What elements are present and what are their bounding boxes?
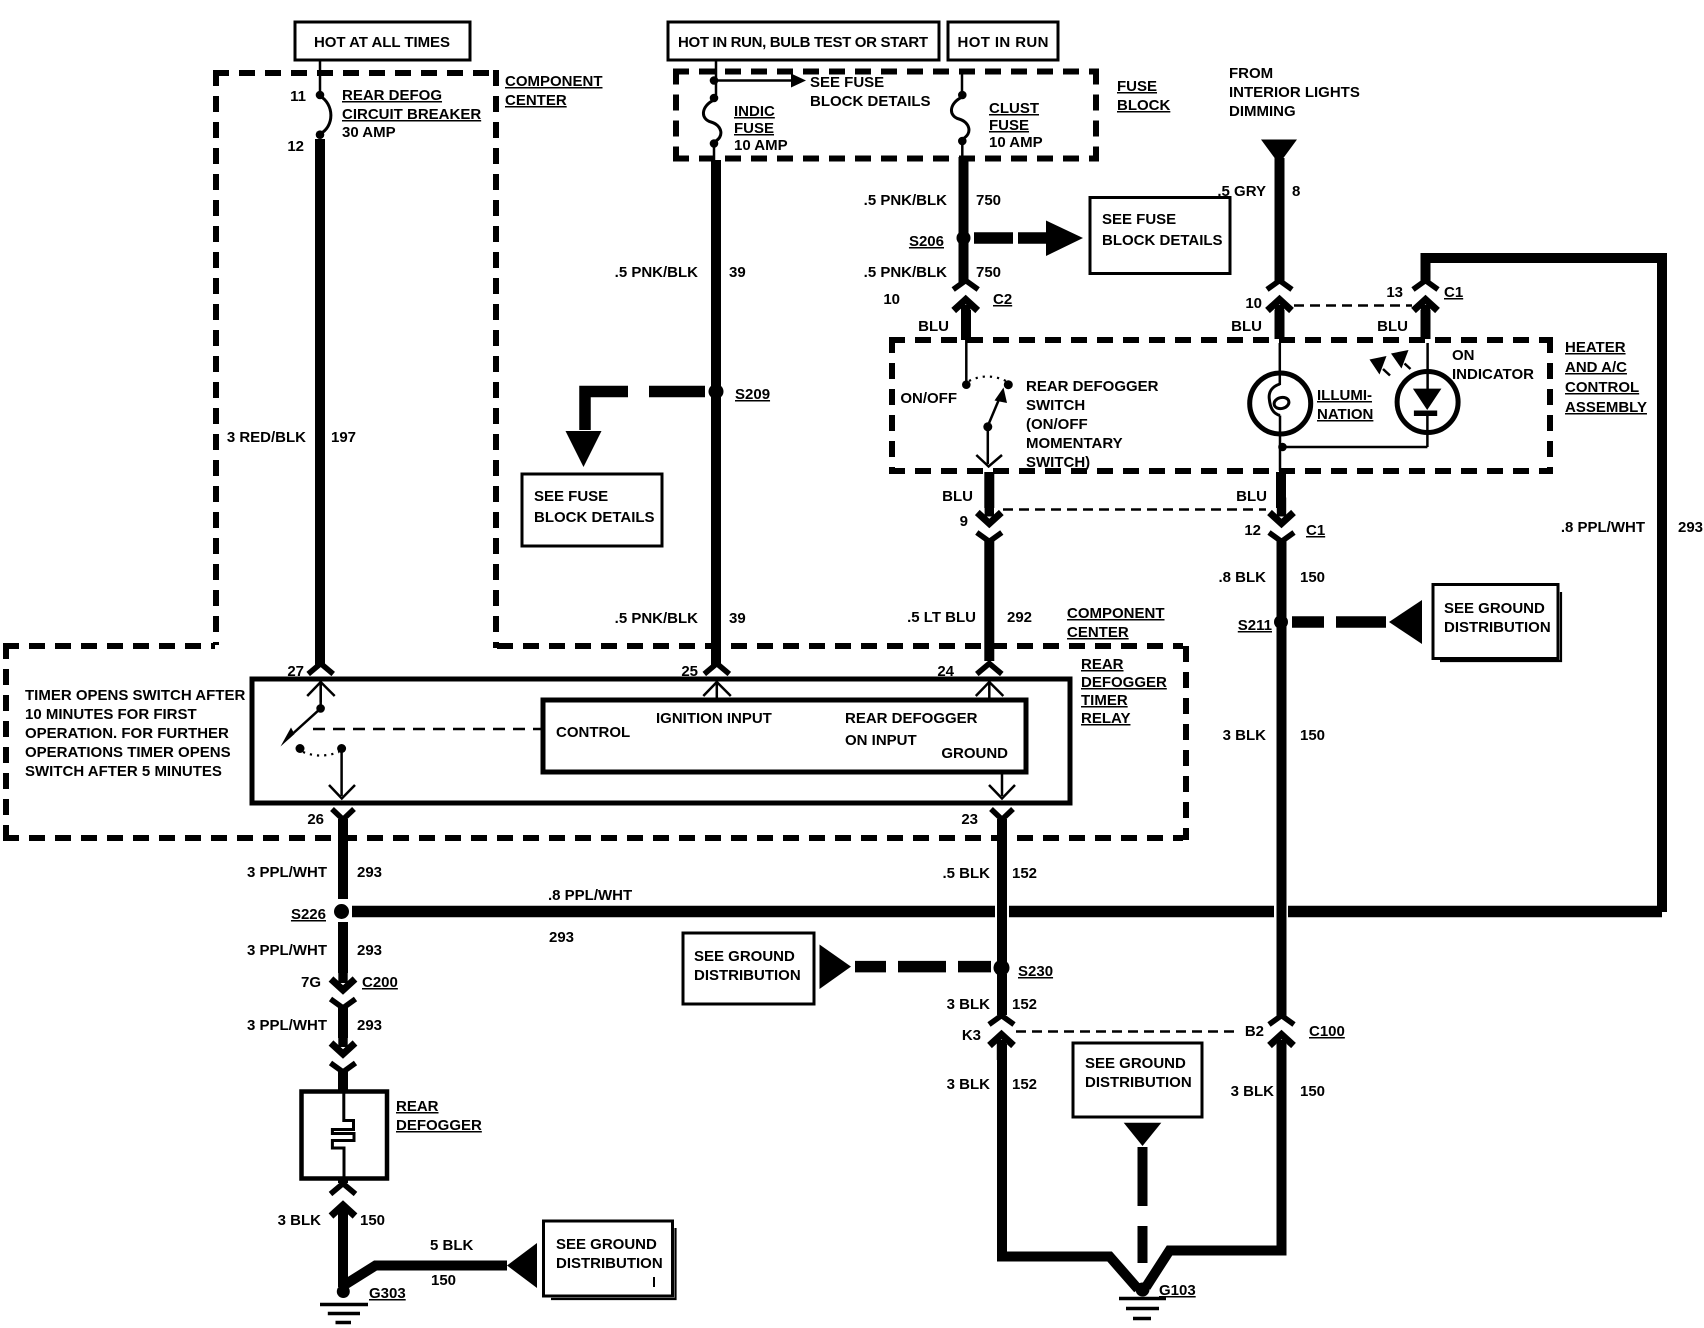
relay ground output arrow to terminal 23 bbox=[1001, 772, 1004, 796]
svg-text:3 PPL/WHT: 3 PPL/WHT bbox=[247, 1017, 327, 1034]
component center outline: right edge bbox=[1183, 646, 1189, 840]
svg-text:.8 PPL/WHT: .8 PPL/WHT bbox=[548, 887, 632, 904]
svg-text:REAR DEFOG: REAR DEFOG bbox=[342, 87, 442, 104]
relay terminal 25 bbox=[703, 664, 731, 703]
fuse CLUST element bbox=[951, 97, 968, 139]
svg-text:150: 150 bbox=[431, 1272, 456, 1289]
branch arrow to SEE FUSE BLOCK DETAILS note bbox=[714, 79, 792, 82]
wire BLU stub into heater box (illumination) bbox=[1275, 310, 1285, 339]
wire 197 RED/BLK vertical bbox=[315, 139, 325, 665]
svg-text:24: 24 bbox=[937, 663, 954, 680]
splice S211 bbox=[1274, 615, 1288, 629]
svg-text:CENTER: CENTER bbox=[1067, 624, 1129, 641]
note box SEE FUSE BLOCK DETAILS (left) bbox=[522, 474, 662, 546]
svg-text:10 AMP: 10 AMP bbox=[734, 137, 788, 154]
svg-text:ILLUMI-: ILLUMI- bbox=[1317, 387, 1372, 404]
svg-text:SEE GROUND: SEE GROUND bbox=[1444, 600, 1545, 617]
wire from feed box to circuit breaker bbox=[319, 60, 322, 95]
note box SEE GROUND DISTRIBUTION (S211) bbox=[1433, 585, 1558, 659]
svg-text:C200: C200 bbox=[362, 974, 398, 991]
svg-text:CENTER: CENTER bbox=[505, 92, 567, 109]
svg-text:293: 293 bbox=[1678, 519, 1703, 536]
S211 branch dashed wire bbox=[1292, 616, 1324, 628]
svg-text:BLOCK: BLOCK bbox=[1117, 97, 1170, 114]
svg-text:S230: S230 bbox=[1018, 963, 1053, 980]
svg-text:C1: C1 bbox=[1306, 522, 1325, 539]
svg-text:10: 10 bbox=[883, 291, 900, 308]
svg-text:293: 293 bbox=[357, 1017, 382, 1034]
svg-text:750: 750 bbox=[976, 192, 1001, 209]
svg-text:S226: S226 bbox=[291, 906, 326, 923]
wire 150 BLK to G103 (right) bbox=[1146, 1044, 1282, 1287]
wire BLU stub into heater box (indicator) bbox=[1421, 310, 1431, 339]
svg-text:.5 PNK/BLK: .5 PNK/BLK bbox=[615, 610, 699, 627]
fuse INDIC lower terminal dot bbox=[710, 139, 719, 148]
svg-text:3 PPL/WHT: 3 PPL/WHT bbox=[247, 864, 327, 881]
svg-text:39: 39 bbox=[729, 264, 746, 281]
svg-text:8: 8 bbox=[1292, 183, 1300, 200]
fuse INDIC upper terminal dot bbox=[710, 94, 719, 103]
wire BLU below heater box (indicator return) bbox=[1276, 472, 1286, 508]
relay switch closed contact dot bbox=[337, 744, 346, 753]
note box SEE FUSE BLOCK DETAILS (right) bbox=[1090, 198, 1230, 274]
svg-text:FUSE: FUSE bbox=[989, 117, 1029, 134]
connector C2 pin 10 bbox=[953, 281, 978, 326]
svg-text:SWITCH): SWITCH) bbox=[1026, 454, 1090, 471]
svg-text:DISTRIBUTION: DISTRIBUTION bbox=[1444, 619, 1551, 636]
svg-text:G303: G303 bbox=[369, 1285, 406, 1302]
rear defogger box bbox=[302, 1092, 388, 1179]
svg-text:293: 293 bbox=[357, 942, 382, 959]
G103 note arrow (filled triangle down) bbox=[1124, 1123, 1162, 1146]
svg-text:11: 11 bbox=[290, 88, 306, 105]
component center outline: relay-box top edge bbox=[497, 643, 1183, 649]
svg-text:COMPONENT: COMPONENT bbox=[1067, 605, 1165, 622]
feed box HOT IN RUN, BULB TEST OR START bbox=[668, 22, 939, 60]
wire stub below CLUST fuse bbox=[961, 141, 964, 158]
relay terminal 23 bbox=[991, 809, 1013, 820]
S206 branch dashed wire to fuse block details bbox=[974, 232, 1013, 244]
svg-text:39: 39 bbox=[729, 610, 746, 627]
ground G303 bbox=[337, 1285, 350, 1298]
relay switch blade with arrowhead bbox=[288, 708, 321, 738]
svg-text:152: 152 bbox=[1012, 996, 1037, 1013]
svg-text:.8 PPL/WHT: .8 PPL/WHT bbox=[1561, 519, 1645, 536]
svg-text:REAR: REAR bbox=[396, 1098, 439, 1115]
svg-text:152: 152 bbox=[1012, 1076, 1037, 1093]
svg-text:SWITCH: SWITCH bbox=[1026, 397, 1085, 414]
switch output thin wire with open arrow bbox=[987, 427, 990, 464]
fuse CLUST upper terminal dot bbox=[958, 91, 967, 100]
component center outline right edge (tall box) bbox=[493, 70, 499, 648]
svg-text:3 BLK: 3 BLK bbox=[947, 1076, 991, 1093]
svg-text:B2: B2 bbox=[1245, 1023, 1264, 1040]
ground symbol G103 bbox=[1119, 1297, 1166, 1301]
splice S230 bbox=[994, 960, 1010, 976]
svg-text:BLOCK DETAILS: BLOCK DETAILS bbox=[810, 93, 931, 110]
svg-text:150: 150 bbox=[1300, 727, 1325, 744]
wire BLU into switch box bbox=[961, 310, 971, 340]
svg-text:HEATER: HEATER bbox=[1565, 339, 1626, 356]
svg-text:SEE FUSE: SEE FUSE bbox=[810, 74, 884, 91]
bulb feed wire inside box bbox=[1279, 343, 1282, 385]
relay terminal 26 bbox=[332, 809, 354, 820]
svg-text:750: 750 bbox=[976, 264, 1001, 281]
svg-text:BLU: BLU bbox=[1236, 488, 1267, 505]
svg-text:(ON/OFF: (ON/OFF bbox=[1026, 416, 1088, 433]
svg-text:10 MINUTES FOR FIRST: 10 MINUTES FOR FIRST bbox=[25, 706, 197, 723]
connector pin 9 (switch output) bbox=[977, 498, 1002, 542]
svg-text:DISTRIBUTION: DISTRIBUTION bbox=[1085, 1074, 1192, 1091]
switch output contact dot bbox=[1004, 380, 1013, 389]
svg-text:27: 27 bbox=[287, 663, 304, 680]
svg-text:BLOCK DETAILS: BLOCK DETAILS bbox=[534, 509, 655, 526]
on indicator LED circle bbox=[1397, 372, 1458, 433]
svg-text:.5 LT BLU: .5 LT BLU bbox=[907, 609, 976, 626]
wire 150 BLK (.8) bbox=[1277, 538, 1287, 1017]
wire into rear defogger switch bbox=[965, 340, 968, 382]
svg-text:C2: C2 bbox=[993, 291, 1012, 308]
svg-text:DIMMING: DIMMING bbox=[1229, 103, 1296, 120]
svg-text:RELAY: RELAY bbox=[1081, 710, 1130, 727]
wire 750 PNK/BLK upper bbox=[959, 157, 969, 284]
svg-text:S206: S206 bbox=[909, 233, 944, 250]
svg-text:SEE GROUND: SEE GROUND bbox=[694, 948, 795, 965]
wire stub below INDIC fuse bbox=[713, 143, 716, 160]
ground symbol G303 bbox=[320, 1303, 368, 1307]
svg-text:MOMENTARY: MOMENTARY bbox=[1026, 435, 1123, 452]
wire 152 BLK to G103 bbox=[1002, 1044, 1138, 1289]
connector below rear defogger bbox=[338, 1178, 348, 1183]
svg-text:10: 10 bbox=[1245, 295, 1262, 312]
svg-text:3 BLK: 3 BLK bbox=[278, 1212, 322, 1229]
wire 293 below C200 bbox=[338, 1005, 348, 1038]
svg-text:293: 293 bbox=[549, 929, 574, 946]
svg-text:CONTROL: CONTROL bbox=[556, 724, 630, 741]
wire 8 GRY vertical bbox=[1275, 158, 1285, 283]
svg-text:CLUST: CLUST bbox=[989, 100, 1039, 117]
wire BLU below switch bbox=[984, 472, 994, 508]
circuit breaker REAR DEFOG 30A (arc element) bbox=[320, 96, 331, 134]
wire 293 PPL/WHT top-right corner run bbox=[1426, 258, 1663, 912]
relay switch output thin arrow to terminal 26 bbox=[340, 749, 343, 797]
svg-text:FROM: FROM bbox=[1229, 65, 1273, 82]
dashed connector tie line 10 to 13 bbox=[1294, 304, 1412, 307]
svg-text:152: 152 bbox=[1012, 865, 1037, 882]
svg-text:3 RED/BLK: 3 RED/BLK bbox=[227, 429, 306, 446]
svg-text:ON/OFF: ON/OFF bbox=[900, 390, 957, 407]
svg-text:3 BLK: 3 BLK bbox=[1231, 1083, 1275, 1100]
wire 150 BLK branch 5 BLK to ground distribution bbox=[346, 1266, 507, 1285]
svg-text:INTERIOR LIGHTS: INTERIOR LIGHTS bbox=[1229, 84, 1360, 101]
svg-text:S209: S209 bbox=[735, 386, 770, 403]
svg-text:.5 BLK: .5 BLK bbox=[942, 865, 990, 882]
component center outline left edge bbox=[213, 70, 219, 645]
svg-text:BLOCK DETAILS: BLOCK DETAILS bbox=[1102, 232, 1223, 249]
svg-text:.5 PNK/BLK: .5 PNK/BLK bbox=[864, 192, 948, 209]
svg-text:SEE FUSE: SEE FUSE bbox=[534, 488, 608, 505]
svg-text:BLU: BLU bbox=[918, 318, 949, 335]
svg-text:23: 23 bbox=[961, 811, 978, 828]
svg-text:3 BLK: 3 BLK bbox=[1223, 727, 1267, 744]
ground G103 bbox=[1136, 1283, 1150, 1297]
svg-text:REAR DEFOGGER: REAR DEFOGGER bbox=[845, 710, 978, 727]
svg-text:SEE GROUND: SEE GROUND bbox=[556, 1236, 657, 1253]
svg-text:197: 197 bbox=[331, 429, 356, 446]
svg-text:7G: 7G bbox=[301, 974, 321, 991]
splice S226 bbox=[334, 904, 349, 919]
connector K3 bbox=[989, 1016, 1014, 1061]
svg-text:CIRCUIT BREAKER: CIRCUIT BREAKER bbox=[342, 106, 481, 123]
svg-text:13: 13 bbox=[1386, 284, 1403, 301]
LED wire below bbox=[1426, 416, 1429, 447]
svg-text:COMPONENT: COMPONENT bbox=[505, 73, 603, 90]
S209 branch corner wire with arrow bbox=[585, 392, 628, 431]
wire 39 PNK/BLK vertical bbox=[711, 160, 721, 665]
svg-text:25: 25 bbox=[681, 663, 698, 680]
svg-text:OPERATIONS TIMER OPENS: OPERATIONS TIMER OPENS bbox=[25, 744, 231, 761]
svg-text:ASSEMBLY: ASSEMBLY bbox=[1565, 399, 1647, 416]
wire from HOT IN RUN into fuse block bbox=[961, 74, 964, 95]
LED diode triangle bbox=[1413, 389, 1442, 410]
wire 150 BLK to G303 bbox=[338, 1208, 348, 1287]
svg-text:DEFOGGER: DEFOGGER bbox=[1081, 674, 1167, 691]
wire 293 into rear defogger bbox=[338, 1069, 348, 1092]
svg-text:IGNITION INPUT: IGNITION INPUT bbox=[656, 710, 772, 727]
illumination bulb circle bbox=[1250, 373, 1311, 434]
svg-text:.5 PNK/BLK: .5 PNK/BLK bbox=[864, 264, 948, 281]
relay terminal 24 bbox=[976, 664, 1004, 703]
bulb filament bbox=[1269, 384, 1280, 416]
relay switch open contact dot bbox=[296, 744, 305, 753]
svg-text:BLU: BLU bbox=[1231, 318, 1262, 335]
svg-text:K3: K3 bbox=[962, 1027, 981, 1044]
svg-text:REAR: REAR bbox=[1081, 656, 1124, 673]
branch arrow (points to wire) bbox=[507, 1243, 537, 1288]
switch blade with arrowhead bbox=[988, 397, 1000, 426]
rear defogger timer relay box bbox=[252, 679, 1070, 803]
switch pivot dot bbox=[983, 422, 992, 431]
relay switch upper contact dot bbox=[319, 681, 322, 705]
svg-text:293: 293 bbox=[357, 864, 382, 881]
svg-text:NATION: NATION bbox=[1317, 406, 1373, 423]
LED arrows bbox=[1370, 356, 1387, 375]
component center outline: left edge of timer note box bbox=[3, 643, 9, 837]
svg-text:ON: ON bbox=[1452, 347, 1475, 364]
svg-text:OPERATION. FOR FURTHER: OPERATION. FOR FURTHER bbox=[25, 725, 229, 742]
node 11 terminal dot bbox=[316, 91, 325, 100]
switch input contact dot bbox=[962, 380, 971, 389]
svg-text:CONTROL: CONTROL bbox=[1565, 379, 1639, 396]
svg-text:TIMER OPENS SWITCH AFTER: TIMER OPENS SWITCH AFTER bbox=[25, 687, 245, 704]
connector pin 10 (illumination) bbox=[1267, 281, 1292, 326]
dashed connector tie line 9 to 12 bbox=[1003, 508, 1266, 511]
svg-text:12: 12 bbox=[287, 138, 304, 155]
svg-text:S211: S211 bbox=[1238, 617, 1272, 634]
svg-text:TIMER: TIMER bbox=[1081, 692, 1128, 709]
svg-text:5 BLK: 5 BLK bbox=[430, 1237, 474, 1254]
svg-text:12: 12 bbox=[1244, 522, 1261, 539]
wire 152 BLK below terminal 23 bbox=[997, 819, 1007, 962]
dashed connector tie line K3 to B2 bbox=[1016, 1030, 1238, 1033]
connector C1 pin 13 bbox=[1413, 281, 1438, 326]
junction wire bulb to LED bbox=[1280, 446, 1427, 449]
svg-text:INDICATOR: INDICATOR bbox=[1452, 366, 1534, 383]
component center outline: timer-box top edge bbox=[3, 643, 215, 649]
svg-text:SEE GROUND: SEE GROUND bbox=[1085, 1055, 1186, 1072]
svg-text:9: 9 bbox=[960, 513, 968, 530]
note box SEE GROUND DISTRIBUTION (G103) bbox=[1073, 1043, 1202, 1117]
svg-text:HOT IN RUN: HOT IN RUN bbox=[958, 34, 1049, 51]
svg-text:3 BLK: 3 BLK bbox=[947, 996, 991, 1013]
svg-text:BLU: BLU bbox=[942, 488, 973, 505]
splice S209 bbox=[709, 384, 724, 399]
svg-text:3 PPL/WHT: 3 PPL/WHT bbox=[247, 942, 327, 959]
svg-text:AND A/C: AND A/C bbox=[1565, 359, 1627, 376]
svg-text:.8 BLK: .8 BLK bbox=[1218, 569, 1266, 586]
fuse INDIC element bbox=[703, 100, 720, 142]
svg-text:GROUND: GROUND bbox=[941, 745, 1008, 762]
connector C200 pin 7G bbox=[331, 964, 356, 1008]
wire 152 below S230 bbox=[997, 974, 1007, 1015]
svg-text:292: 292 bbox=[1007, 609, 1032, 626]
fuse block dashed box bbox=[673, 69, 1099, 75]
wire 293 PPL/WHT horizontal bus bbox=[352, 906, 995, 918]
relay terminal 27 bbox=[307, 664, 335, 703]
feed arrow (filled triangle down) bbox=[1261, 140, 1297, 165]
in-line connector (unlabeled) bbox=[331, 1028, 356, 1072]
svg-text:SEE FUSE: SEE FUSE bbox=[1102, 211, 1176, 228]
svg-text:FUSE: FUSE bbox=[734, 120, 774, 137]
svg-text:.5 GRY: .5 GRY bbox=[1217, 183, 1266, 200]
LED feed wire inside box bbox=[1426, 343, 1429, 389]
svg-text:G103: G103 bbox=[1159, 1282, 1196, 1299]
S211 branch arrow (points to splice) bbox=[1389, 600, 1422, 644]
heater and A/C control assembly dashed box bbox=[889, 337, 1553, 343]
svg-text:HOT AT ALL TIMES: HOT AT ALL TIMES bbox=[314, 34, 450, 51]
connector C100 pin B2 bbox=[1269, 1016, 1294, 1061]
LED cathode bar bbox=[1414, 411, 1437, 417]
wire 293 below S226 bbox=[338, 922, 348, 973]
rear defogger grid element bbox=[332, 1093, 354, 1177]
relay switch travel dotted arc bbox=[303, 752, 339, 756]
svg-text:10 AMP: 10 AMP bbox=[989, 134, 1043, 151]
svg-text:SWITCH AFTER 5 MINUTES: SWITCH AFTER 5 MINUTES bbox=[25, 763, 222, 780]
svg-text:150: 150 bbox=[1300, 1083, 1325, 1100]
feed box HOT IN RUN bbox=[948, 22, 1058, 60]
svg-text:BLU: BLU bbox=[1377, 318, 1408, 335]
svg-text:FUSE: FUSE bbox=[1117, 78, 1157, 95]
svg-text:DEFOGGER: DEFOGGER bbox=[396, 1117, 482, 1134]
connector C1 pin 12 bbox=[1269, 498, 1294, 542]
svg-text:HOT IN RUN, BULB TEST OR START: HOT IN RUN, BULB TEST OR START bbox=[678, 34, 928, 51]
svg-text:C100: C100 bbox=[1309, 1023, 1345, 1040]
splice S206 bbox=[957, 231, 971, 245]
svg-text:DISTRIBUTION: DISTRIBUTION bbox=[694, 967, 801, 984]
S230 branch arrow (points to splice) bbox=[820, 945, 852, 990]
fuse CLUST lower terminal dot bbox=[958, 137, 967, 146]
wire 293 PPL/WHT below terminal 26 bbox=[338, 819, 348, 899]
svg-text:REAR DEFOGGER: REAR DEFOGGER bbox=[1026, 378, 1159, 395]
svg-text:150: 150 bbox=[1300, 569, 1325, 586]
svg-text:30 AMP: 30 AMP bbox=[342, 124, 396, 141]
component center outline: bottom edge bbox=[3, 835, 1183, 841]
note box SEE GROUND DISTRIBUTION (S230) bbox=[683, 933, 814, 1004]
relay control inner box bbox=[543, 700, 1026, 772]
junction dot bbox=[1278, 443, 1287, 452]
wire 292 LT BLU bbox=[984, 538, 994, 661]
node 12 terminal dot bbox=[316, 130, 325, 139]
component center dashed outline (top-left tall box) top edge bbox=[213, 70, 497, 76]
S209 branch dashed wire bbox=[649, 386, 705, 398]
node: fuse block branch dot bbox=[710, 76, 719, 85]
svg-text:DISTRIBUTION: DISTRIBUTION bbox=[556, 1255, 663, 1272]
switch travel dotted arc bbox=[969, 377, 1006, 382]
wire from feed box into fuse block bbox=[715, 60, 718, 95]
note box SEE GROUND DISTRIBUTION (G303) bbox=[544, 1221, 673, 1296]
G103 note dashed wire bbox=[1138, 1147, 1148, 1263]
svg-text:150: 150 bbox=[360, 1212, 385, 1229]
svg-text:.5 PNK/BLK: .5 PNK/BLK bbox=[615, 264, 699, 281]
relay control dashed line to CONTROL bbox=[313, 728, 543, 731]
svg-text:INDIC: INDIC bbox=[734, 103, 775, 120]
svg-text:ON INPUT: ON INPUT bbox=[845, 732, 917, 749]
S230 branch dashed wire bbox=[855, 961, 886, 973]
svg-text:26: 26 bbox=[307, 811, 324, 828]
wire BLU out of heater box bbox=[1279, 447, 1282, 471]
svg-text:C1: C1 bbox=[1444, 284, 1463, 301]
feed box HOT AT ALL TIMES bbox=[295, 22, 470, 60]
